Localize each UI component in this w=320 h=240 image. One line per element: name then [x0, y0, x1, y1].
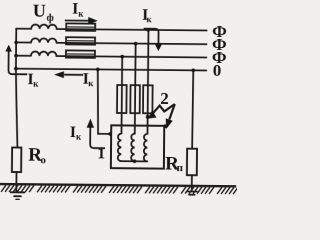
wire phase C line L3 — [56, 56, 206, 57]
current arrow Ik along phase A — [65, 17, 98, 25]
svg-text:к: к — [33, 78, 39, 88]
motor winding M2 — [131, 134, 135, 162]
wire phase C left segment — [16, 55, 31, 57]
wire drop phase C to motor — [120, 57, 123, 134]
resistor Rp — [187, 149, 197, 176]
transformer winding W2 — [31, 38, 57, 43]
svg-text:п: п — [177, 162, 184, 174]
wire drop phase B to motor — [134, 44, 137, 134]
wire phase A left segment — [16, 28, 31, 30]
transformer winding W3 — [31, 51, 57, 56]
svg-text:к: к — [147, 14, 153, 24]
resistor R0 — [12, 147, 21, 172]
wire drop phase A to motor — [146, 30, 149, 134]
wire phase B left segment — [16, 41, 31, 43]
junction bus-L2 — [14, 41, 18, 45]
junction L3-fuse drop — [120, 55, 124, 59]
earth electrode E1 — [11, 192, 25, 199]
transformer winding W1 — [31, 24, 57, 29]
wire Rp to earth — [191, 175, 193, 190]
svg-text:к: к — [88, 78, 94, 88]
svg-text:2: 2 — [160, 89, 169, 108]
motor case (device 1) — [111, 125, 164, 168]
breaker QF1 — [66, 23, 95, 30]
wire neutral to earthing resistor — [15, 69, 18, 148]
breaker QF2 — [66, 37, 95, 44]
earth hatching — [1, 185, 238, 194]
junction bus-L4 — [14, 67, 18, 71]
junction L2-fuse drop — [134, 42, 138, 46]
breaker QF3 — [66, 50, 95, 57]
node N star-point bus — [15, 29, 17, 69]
fuse F2 — [130, 85, 140, 113]
junction L4-Rp drop — [191, 69, 195, 73]
earth surface line — [0, 184, 236, 186]
svg-text:ф: ф — [47, 13, 54, 24]
junction bus-L3 — [14, 54, 18, 58]
junction motor case left — [108, 132, 112, 136]
fault point on fuse wire — [146, 115, 150, 119]
fault lightning arrows — [148, 104, 175, 129]
junction L1-fuse drop — [146, 28, 150, 32]
svg-text:0: 0 — [213, 61, 222, 80]
wire motor star bar — [121, 160, 147, 162]
fuse F3 — [143, 85, 153, 113]
wire neutral to motor case (protective conductor) — [97, 69, 112, 134]
junction L4-protective conductor — [96, 68, 100, 72]
fuse F1 — [117, 85, 127, 113]
wire neutral to repeated earthing resistor Rp — [192, 70, 193, 148]
wire phase A line L1 — [57, 29, 207, 30]
svg-text:к: к — [78, 8, 84, 18]
svg-text:1: 1 — [97, 145, 105, 162]
current arrow Ik up protective conductor — [86, 119, 105, 149]
earth electrode E2 — [187, 191, 198, 194]
svg-text:U: U — [33, 1, 46, 21]
wire phase B line L2 — [57, 43, 207, 44]
junction motor star point — [133, 159, 137, 163]
current arrow Ik left along neutral — [54, 71, 83, 78]
motor winding M1 — [118, 134, 122, 162]
wire R0 to earth — [15, 172, 17, 192]
wire neutral line L4 — [16, 69, 206, 71]
current arrow Ik down fault drop — [143, 29, 162, 52]
svg-text:к: к — [76, 131, 82, 141]
fault point on case corner — [163, 124, 167, 128]
svg-text:о: о — [40, 154, 46, 166]
motor winding M3 — [144, 134, 148, 162]
current arrow Ik up neutral conductor — [5, 45, 27, 75]
